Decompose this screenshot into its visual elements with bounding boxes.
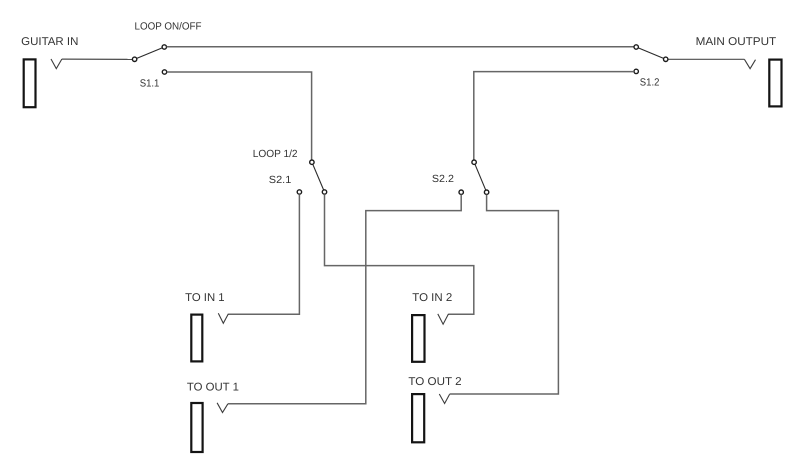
svg-text:S1.1: S1.1 [140, 78, 160, 89]
switch S1.2 lever [636, 47, 666, 59]
jack J1 tip lug [51, 59, 62, 69]
jack J2 MAIN OUTPUT body [769, 60, 781, 107]
switch S2.2 throw L [459, 190, 463, 194]
svg-text:MAIN OUTPUT: MAIN OUTPUT [696, 36, 777, 48]
wire S2.1 throw L to J3 tip [228, 194, 299, 314]
wire S2.2 throw R to J6 tip [450, 195, 559, 395]
jack J1 GUITAR IN body [24, 59, 36, 107]
switch S1.2 throw A [634, 45, 638, 49]
svg-text:LOOP 1/2: LOOP 1/2 [253, 149, 298, 160]
wire S2.2 throw L to J5 tip [228, 195, 461, 404]
svg-text:S1.2: S1.2 [640, 78, 660, 89]
svg-text:S2.2: S2.2 [432, 174, 454, 185]
switch S1.2 pole [664, 57, 668, 61]
jack J6 TO OUT 2 body [412, 394, 424, 442]
switch S2.2 pole [472, 160, 476, 164]
switch S2.2 throw R [484, 190, 488, 194]
svg-text:GUITAR IN: GUITAR IN [21, 36, 78, 48]
jack J5 tip lug [217, 403, 228, 413]
svg-text:TO IN 2: TO IN 2 [412, 292, 452, 304]
jack J4 tip lug [438, 314, 449, 324]
jack J4 TO IN 2 body [412, 315, 424, 362]
wire S1.2 throw B to S2.2 pole [474, 72, 634, 160]
jack J5 TO OUT 1 body [191, 403, 202, 452]
svg-text:LOOP ON/OFF: LOOP ON/OFF [135, 22, 202, 33]
wire bypass S1.1 throw A to S1.2 throw A [167, 46, 634, 48]
jack J3 tip lug [218, 313, 228, 323]
jack J6 tip lug [439, 394, 449, 404]
svg-text:TO OUT 1: TO OUT 1 [187, 382, 239, 394]
svg-text:S2.1: S2.1 [269, 175, 292, 186]
switch S1.1 throw A [162, 45, 166, 49]
switch S1.2 throw B [634, 69, 638, 73]
switch S2.1 throw L [297, 190, 301, 194]
switch S2.1 pole [310, 160, 314, 164]
switch S1.1 pole [132, 57, 136, 61]
wire J1 tip to S1.1 pole [62, 58, 132, 60]
switch S2.1 lever [312, 162, 325, 192]
jack J2 tip lug [744, 59, 755, 68]
switch S1.1 lever [135, 47, 165, 59]
switch S1.1 throw B [162, 70, 166, 74]
jack J3 TO IN 1 body [191, 315, 202, 362]
wire S2.1 throw R to J4 tip [325, 194, 474, 314]
wire S1.2 pole to J2 tip [668, 58, 744, 60]
svg-text:TO OUT 2: TO OUT 2 [408, 376, 461, 388]
switch S2.2 lever [474, 162, 487, 192]
switch S2.1 throw R [322, 190, 326, 194]
svg-text:TO IN 1: TO IN 1 [185, 292, 225, 304]
wire S1.1 throw B to S2.1 pole [167, 72, 312, 160]
